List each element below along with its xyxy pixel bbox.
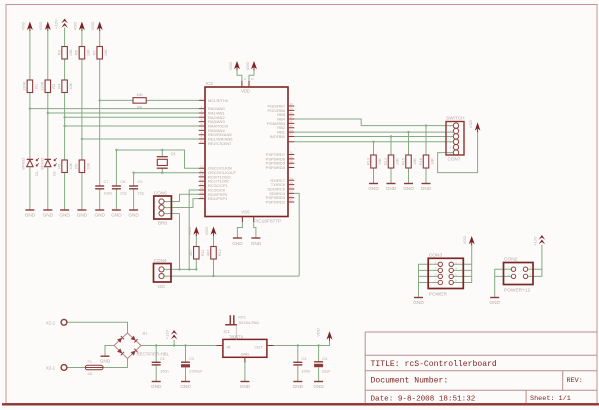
ground bridge [101,355,110,357]
+12V arrow power rail double chevron [171,330,178,335]
svg-text:33: 33 [290,133,294,137]
wire col2 R2 to D2 [47,93,49,160]
svg-text:100n: 100n [302,368,311,373]
wire R15 to GND [408,168,410,184]
resistor R15 [406,155,412,168]
svg-text:+12V: +12V [164,329,169,339]
capacitor C6 [112,186,121,189]
wire C9 to GND [133,189,135,210]
wire col1 D1 to GND [29,168,31,211]
svg-text:100n: 100n [160,368,169,373]
title block [365,332,596,403]
svg-text:GND: GND [94,213,105,218]
wire col2 D2 to GND [47,168,49,211]
wire col3 R3 to R4 [64,59,66,80]
wire net SCL horizontal [164,268,196,270]
svg-text:GND: GND [180,384,191,389]
bridge rectifier B1 [114,333,141,359]
capacitor C3 [293,362,302,365]
svg-text:R3: R3 [57,50,61,55]
svg-text:Document Number:: Document Number: [371,377,449,386]
ground C9 [129,209,138,211]
resistor R7 [97,47,103,60]
svg-text:INT/RB0: INT/RB0 [270,134,286,139]
VDD arrow col4 [79,22,85,31]
wire C1 taps [155,346,157,382]
wire C6 to node A [115,150,117,186]
ground col2 [43,209,52,211]
svg-text:10K: 10K [69,162,73,169]
svg-text:C1: C1 [160,356,165,361]
svg-text:C2: C2 [189,356,194,361]
ground R15 [404,183,413,185]
capacitor C1 [152,362,161,365]
svg-text:R7: R7 [92,50,96,55]
connector CON2 [504,263,534,285]
wire regulator OUT rail to VDD [274,340,330,346]
power arrows [27,19,545,341]
svg-text:220K: 220K [23,81,27,90]
wire net RA2: col3 to IC [65,116,199,118]
ground col1 [25,209,34,211]
svg-text:18: 18 [200,186,204,190]
svg-text:25: 25 [290,181,294,185]
resistor R14 [388,155,394,168]
svg-text:R6: R6 [75,50,79,55]
resistor R12 [211,247,217,260]
ground R16 [422,183,431,185]
wire R11 VDD stem [195,235,197,247]
VDD arrow IC top right [251,61,257,69]
wire CON7 pin6 loop to VDD [438,131,478,172]
capacitor C2 electrolytic [181,362,190,367]
wire net MCLR: col5 to R8 and R8 to IC [100,99,133,101]
svg-text:GND: GND [403,186,414,191]
terminal X2-2 [61,319,67,325]
svg-text:PSP4/RD4: PSP4/RD4 [266,165,286,170]
svg-text:10: 10 [200,140,204,144]
svg-text:10K: 10K [104,49,108,56]
wire VDD arrows to IC top pins [237,69,242,80]
svg-text:GND: GND [100,359,111,364]
wire C4 taps [318,346,320,382]
svg-text:POWER+12: POWER+12 [504,288,531,294]
svg-text:32: 32 [251,77,255,81]
svg-text:GND: GND [111,213,122,218]
+12V arrow col3 double chevron [61,19,68,24]
svg-text:GND: GND [77,213,88,218]
wire fuse to bridge bottom [103,359,127,368]
wire col4 VDD to R6 [81,30,83,47]
svg-text:VDD: VDD [462,236,467,245]
crystal Q1 [157,157,168,169]
svg-text:Sheet: 1/1: Sheet: 1/1 [530,395,571,403]
svg-text:10K: 10K [413,158,417,165]
svg-text:MCLR/THV: MCLR/THV [208,98,229,103]
svg-text:10K: 10K [69,82,73,89]
svg-text:C6: C6 [120,179,125,184]
svg-text:C3: C3 [302,356,307,361]
wire X2-1 to fuse [67,367,85,369]
svg-text:GND: GND [151,384,162,389]
resistor R16 [423,155,429,168]
svg-text:10K: 10K [86,162,90,169]
svg-text:C7: C7 [104,179,109,184]
resistor R4 [62,80,68,93]
svg-text:R5: R5 [57,164,61,169]
VDD arrow R11 [193,227,199,235]
wire IC VSS pin2 to GND [254,222,256,238]
ground col4 [77,209,86,211]
photodiode D1 [27,158,39,167]
wire R16 tap [425,126,427,155]
svg-text:R9: R9 [75,164,79,169]
svg-text:16: 16 [200,177,204,181]
VDD arrow col5 [97,22,103,31]
wire CON2 left pins to GND bus [495,269,512,297]
svg-text:20: 20 [200,195,204,199]
ground C7 [95,209,104,211]
svg-text:VDD: VDD [316,328,321,337]
svg-text:R13: R13 [366,158,370,165]
VDD arrow R12 [211,227,217,235]
wire bridge left to GND [105,346,114,357]
svg-text:CON2: CON2 [504,257,518,263]
svg-text:10K: 10K [86,49,90,56]
wire crystal node B: C9 to OSC2 [134,172,199,174]
svg-text:21: 21 [290,198,294,202]
svg-text:B1: B1 [143,331,149,336]
VDD arrow col1 [27,22,33,31]
IC left pin names [208,98,237,201]
svg-text:I2C: I2C [158,284,166,289]
wire net SDA up to IC RC4 [294,193,299,276]
IC left pin numbers [200,97,204,199]
svg-text:IC2: IC2 [206,81,214,87]
svg-text:GND: GND [232,241,243,246]
svg-text:GND: GND [293,384,304,389]
svg-text:R2: R2 [52,84,56,89]
wire col1 R1 to D1 [29,93,31,160]
wire IC VSS pin1 to GND [237,222,242,238]
svg-text:PSP2/RD2: PSP2/RD2 [266,200,286,205]
svg-text:10K: 10K [69,49,73,56]
svg-text:KK1: KK1 [239,315,246,320]
svg-text:SK104-PAD: SK104-PAD [239,320,260,325]
wire CON3 left pins to GND bus [419,264,439,297]
wire col5 R7 to MCLR node [99,59,101,100]
wire CON6 pin2 to IC RD1 [164,199,199,208]
wire col4 R6 to R9 [81,59,83,160]
svg-text:R12: R12 [218,249,222,256]
svg-text:13: 13 [200,164,204,168]
svg-text:220K: 220K [41,81,45,90]
svg-text:100n: 100n [104,191,113,196]
svg-text:X2-1: X2-1 [46,366,56,371]
ground under IC VSS left [233,237,242,239]
svg-text:BPW22: BPW22 [40,158,44,170]
wire C7 to GND [99,189,101,210]
svg-text:VDD: VDD [468,120,473,129]
svg-text:VDD: VDD [20,22,25,31]
wire switch net2: IC RB1 to CON7 pin2 [294,131,453,133]
wire net RA0: col1 to IC [30,108,199,110]
svg-text:RE2/CS/AN7: RE2/CS/AN7 [208,141,232,146]
wire R11 bottom to SCL [195,259,197,269]
wire col3 R4 to R5 [64,93,66,161]
wire switch net4: IC to CON7 pin4 [294,141,453,143]
svg-text:D1: D1 [35,171,39,176]
svg-text:VDD: VDD [228,62,233,71]
svg-text:4K7: 4K7 [189,249,193,256]
ground C4 [314,381,323,383]
svg-text:37: 37 [290,115,294,119]
wire net RA4: col3 to IC [65,125,199,127]
svg-text:R8: R8 [137,106,142,110]
wire switch net1: IC RB4 to CON7 pin1 with jog [294,119,453,126]
wire col1 VDD to R1 [29,30,31,80]
wire C3 taps [297,346,299,382]
svg-text:GND: GND [413,300,424,305]
svg-text:10K: 10K [136,93,143,97]
wire R16 to GND [425,168,427,184]
wire net RA1: col2 to IC [48,112,199,114]
wire net SCL up to IC RC3 [189,190,199,269]
svg-text:10K: 10K [378,158,382,165]
svg-text:11: 11 [244,77,247,81]
wire crystal Q1 top lead [161,150,163,157]
svg-text:TITLE: rcS-Controllerboard: TITLE: rcS-Controllerboard [371,360,497,369]
svg-text:39: 39 [290,107,294,111]
resistor R9 [79,160,85,173]
wire CON2 right pins to +12V bus [528,245,542,277]
svg-text:VDD: VDD [204,227,209,236]
capacitor C4 electrolytic [314,362,323,367]
wire CON3 right pins to VDD bus [453,245,471,283]
svg-text:27: 27 [290,164,294,168]
wire crystal node A: C6 to OSC1 [116,150,198,168]
resistor R1 [27,80,33,93]
IC2 bottom VSS pin stubs [242,217,253,223]
connector CON6 [154,196,172,219]
svg-text:4K7: 4K7 [206,249,210,256]
svg-text:CON3: CON3 [429,253,443,259]
svg-text:F1: F1 [88,360,92,364]
svg-text:23: 23 [290,190,294,194]
resistor R11 [194,247,200,260]
svg-text:C4: C4 [322,356,328,361]
ground CON3 [414,297,423,299]
capacitor C9 [129,186,138,189]
heatsink KK1 [225,315,237,339]
terminal X2-1 [61,365,67,371]
wire R15 tap [408,132,410,155]
VDD arrow col2 [45,22,51,31]
wire col5 MCLR node down to C7 [99,100,101,186]
wire R13 to GND [373,168,375,184]
svg-text:OUT: OUT [255,345,264,350]
svg-text:VDD: VDD [90,22,95,31]
wire net RE1: col4 to IC [82,138,199,140]
svg-text:22p: 22p [138,191,145,196]
ground C3 [293,381,302,383]
VDD arrow power out [327,331,333,339]
ground C2 [181,381,190,383]
ground regulator [240,381,249,383]
IC2 left pin stubs [199,100,205,198]
svg-text:POWER: POWER [429,292,448,298]
svg-text:GND: GND [25,213,36,218]
connector CON3 [428,258,463,288]
wire C9 to node B [133,173,135,186]
wire col3 +12V to R3 [64,28,66,47]
svg-text:2A: 2A [88,372,93,376]
svg-text:R11: R11 [201,249,205,256]
regulator U IC1 7805 [217,339,274,362]
svg-text:22p: 22p [120,191,127,196]
svg-text:+12V: +12V [532,236,537,246]
svg-text:CON6: CON6 [154,191,167,196]
resistor R2 [45,80,51,93]
wire crystal Q1 bottom lead [161,168,163,173]
wire col3 R5 to GND [64,173,66,211]
VDD arrow CON3 [469,236,475,244]
svg-text:GND: GND [59,213,70,218]
svg-text:VDD: VDD [241,89,250,94]
resistor R8 horizontal [133,98,146,104]
svg-text:X2-2: X2-2 [46,320,56,325]
svg-text:CON4: CON4 [154,258,167,263]
ground under IC VSS right [251,237,260,239]
ground col3 [60,209,69,211]
resistor R6 [79,47,85,60]
svg-text:RD1/PSP1: RD1/PSP1 [208,196,228,201]
wire R12 VDD stem [213,235,215,247]
ground R13 [369,183,378,185]
wire R12 bottom to SDA [213,259,215,276]
svg-text:R1: R1 [34,84,38,89]
connector CON4 [154,264,172,283]
svg-text:+12V: +12V [54,19,59,29]
wire +12V arrow stem [173,340,175,346]
wire regulator GND to GND [244,363,246,382]
wire col5 VDD to R7 [99,30,101,47]
ground C1 [152,381,161,383]
svg-text:IC1: IC1 [224,329,231,334]
wire col4 R9 to GND [81,173,83,211]
svg-text:GND: GND [386,186,397,191]
wire R14 tap [390,136,392,155]
wire col2 VDD to R2 [47,30,49,80]
svg-text:35: 35 [290,124,294,128]
svg-text:D2: D2 [53,171,57,176]
IC2 right pin stubs [288,106,294,202]
ground R14 [387,183,396,185]
svg-text:GND: GND [251,241,262,246]
svg-text:10K: 10K [431,158,435,165]
svg-text:GND: GND [240,384,251,389]
svg-text:22uF: 22uF [322,368,331,373]
svg-text:VDD: VDD [38,22,43,31]
svg-text:VSS: VSS [241,210,250,215]
svg-text:BR0: BR0 [158,221,168,226]
svg-text:Q1: Q1 [171,151,177,156]
capacitor C7 [95,186,104,189]
resistor R3 [62,47,68,60]
wire X2-2 to bridge top [67,322,128,333]
IC2 top VDD pin stubs [242,81,249,87]
svg-text:R4: R4 [57,84,61,89]
svg-text:R14: R14 [384,158,388,165]
resistor R13 [371,155,377,168]
svg-text:29: 29 [290,155,294,159]
svg-text:REV:: REV: [567,377,583,385]
svg-text:2200uF: 2200uF [189,368,203,373]
resistor R5 [62,160,68,173]
svg-text:R16: R16 [419,158,423,165]
svg-text:PIC16F877P: PIC16F877P [254,218,281,224]
photodiode D2 [45,158,57,167]
wire C6 to GND [115,189,117,210]
ground C6 [112,209,121,211]
wire CON6 pin1 to IC RD0 [164,194,199,201]
svg-text:GND: GND [489,300,500,305]
svg-text:R15: R15 [401,158,405,165]
svg-text:GND: GND [128,213,139,218]
connector CON7 SWITCH [446,122,464,156]
VDD arrow IC top left [234,61,240,69]
VDD arrow CON7 [475,122,481,131]
fuse F1 [85,365,103,370]
svg-text:GND: GND [313,384,324,389]
svg-text:Date: 9-8-2008 18:51:32: Date: 9-8-2008 18:51:32 [371,396,476,404]
svg-text:7805TV: 7805TV [229,335,244,340]
IC right pin names [266,104,286,205]
wire R13 tap [373,142,375,155]
svg-text:GND: GND [43,213,54,218]
wire bridge right to regulator IN rail [141,345,223,347]
wire net SDA horizontal [164,275,299,277]
svg-text:VDD: VDD [72,22,77,31]
wire R14 to GND [390,168,392,184]
IC U IC2 PIC16F877 box [205,87,288,217]
wire CON6 pin3 down to SCL net [179,214,181,270]
+12V arrow CON2 double chevron [539,235,546,240]
svg-text:IN: IN [227,345,231,350]
wire switch net3: IC RB0 to CON7 pin3 [294,135,453,137]
svg-text:10K: 10K [396,158,400,165]
svg-text:CON7: CON7 [448,157,461,162]
svg-text:GND: GND [421,186,432,191]
svg-text:GND: GND [241,352,250,357]
svg-text:GND: GND [368,186,379,191]
wire C2 taps [185,346,187,382]
svg-text:SWITCH: SWITCH [446,116,465,121]
ground CON2 [490,297,499,299]
IC right pin numbers [290,102,294,202]
svg-text:C9: C9 [138,179,143,184]
svg-text:VDD: VDD [187,227,192,236]
svg-text:BPW22: BPW22 [21,158,25,170]
svg-text:VDD: VDD [245,62,250,71]
